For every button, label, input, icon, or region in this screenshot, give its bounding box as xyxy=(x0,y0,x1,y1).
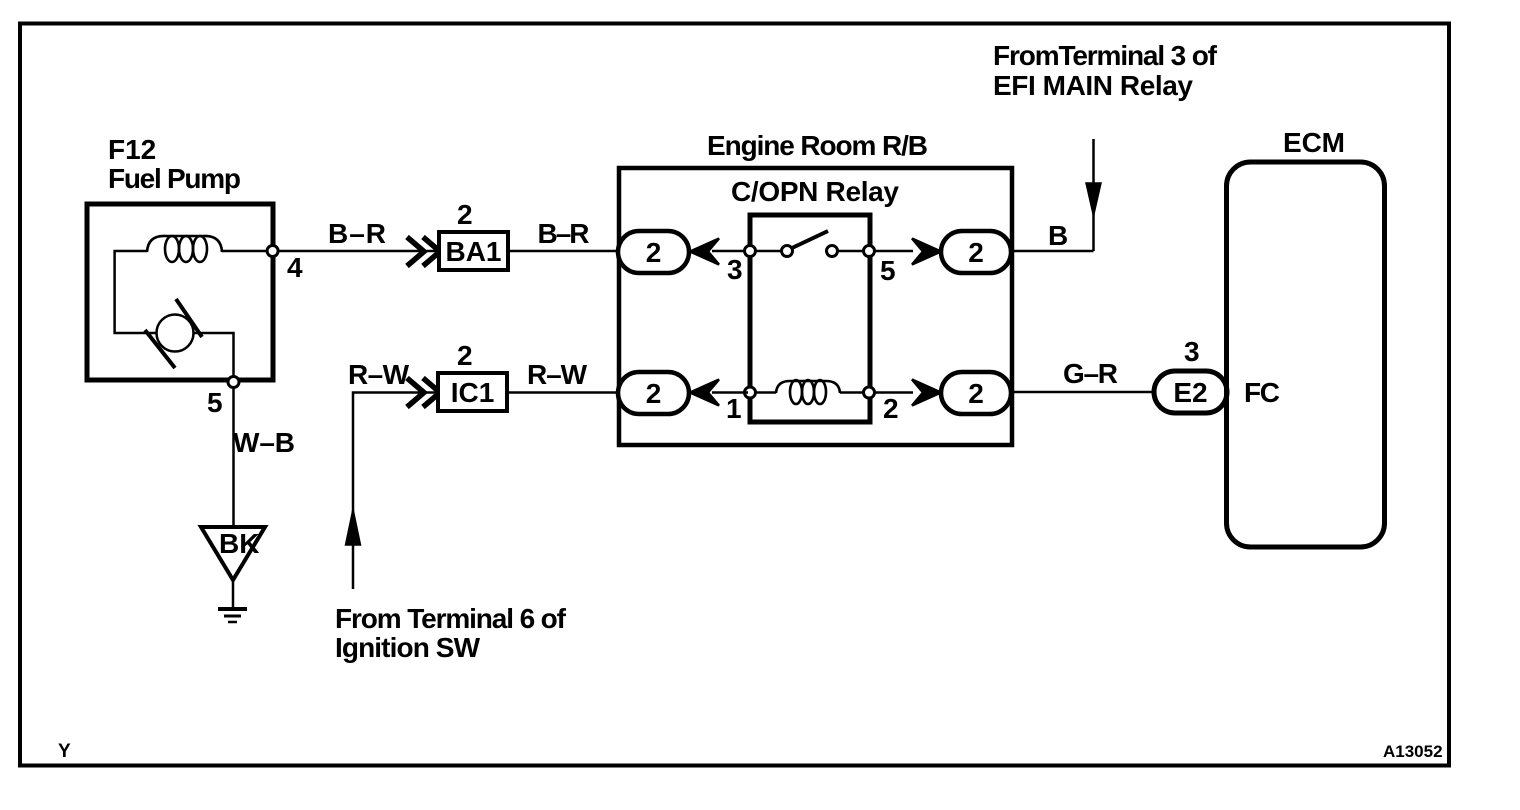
wire W-B xyxy=(233,388,295,527)
svg-text:2: 2 xyxy=(457,199,473,230)
svg-text:2: 2 xyxy=(883,393,899,424)
svg-text:1: 1 xyxy=(726,393,742,424)
svg-text:5: 5 xyxy=(880,255,896,286)
svg-text:W–B: W–B xyxy=(233,427,295,458)
wire R-W from ignition switch (with up arrow) xyxy=(346,359,441,589)
connector 2 (right bottom) xyxy=(912,372,1011,414)
inductor (fuel pump coil) xyxy=(147,236,222,262)
svg-text:R–W: R–W xyxy=(348,359,410,390)
label Y xyxy=(58,741,71,762)
relay C/OPN xyxy=(731,176,899,422)
wire B xyxy=(1011,220,1094,251)
svg-text:BA1: BA1 xyxy=(445,236,501,267)
connector 2 (left top) xyxy=(618,231,719,273)
svg-text:C/OPN Relay: C/OPN Relay xyxy=(731,176,899,207)
svg-text:G–R: G–R xyxy=(1063,358,1118,389)
svg-text:B–R: B–R xyxy=(538,218,590,249)
svg-text:FC: FC xyxy=(1244,377,1280,408)
connector BA1 xyxy=(407,199,508,270)
svg-text:IC1: IC1 xyxy=(451,377,495,408)
wire (motor to node 5) xyxy=(194,333,234,376)
wire (terminal 2 to right arrow, bottom) xyxy=(875,391,913,394)
wire R-W (IC1 to R/B) xyxy=(507,359,618,393)
ECM box xyxy=(1227,127,1385,547)
svg-text:2: 2 xyxy=(457,340,473,371)
svg-text:2: 2 xyxy=(646,378,662,409)
svg-text:2: 2 xyxy=(646,237,662,268)
svg-text:Engine Room R/B: Engine Room R/B xyxy=(707,130,928,161)
svg-text:2: 2 xyxy=(968,378,984,409)
connector E2 (pin 3) xyxy=(1154,336,1227,413)
svg-text:E2: E2 xyxy=(1173,377,1207,408)
ground shield BK xyxy=(201,527,265,580)
svg-text:R–W: R–W xyxy=(527,359,588,390)
label A13052 xyxy=(1383,742,1443,761)
svg-text:B: B xyxy=(1048,220,1068,251)
svg-text:3: 3 xyxy=(727,254,743,285)
svg-text:5: 5 xyxy=(207,387,223,418)
wire (coil to node 4) xyxy=(222,250,268,253)
note From Terminal 6 of Ignition SW xyxy=(335,603,567,663)
wire B-R (BA1 to R/B) xyxy=(508,218,618,251)
fuel pump F12 box xyxy=(87,204,273,380)
note From Terminal 3 of EFI MAIN Relay xyxy=(993,40,1218,101)
svg-text:F12: F12 xyxy=(108,134,156,165)
wire B-R (node 4 to BA1) xyxy=(278,218,440,251)
svg-text:FromTerminal 3 of: FromTerminal 3 of xyxy=(993,40,1218,71)
connector IC1 xyxy=(407,340,507,411)
motor M (fuel pump) xyxy=(145,299,202,368)
svg-text:Y: Y xyxy=(58,741,71,762)
junction block Engine Room R/B xyxy=(619,130,1012,445)
node 4 xyxy=(267,246,303,284)
svg-text:4: 4 xyxy=(287,252,303,283)
svg-text:B–R: B–R xyxy=(328,218,386,249)
label F12 Fuel Pump xyxy=(108,134,241,194)
wire from EFI MAIN relay (with down arrow) xyxy=(1086,139,1101,251)
relay coil (terminals 1 and 2) xyxy=(726,380,899,424)
ground xyxy=(218,578,247,622)
wire (terminal 5 to right arrow) xyxy=(875,250,913,253)
svg-text:Ignition SW: Ignition SW xyxy=(335,632,481,663)
svg-text:A13052: A13052 xyxy=(1383,742,1443,761)
relay switch (terminals 3 and 5) xyxy=(727,231,896,286)
wire G-R xyxy=(1011,358,1154,392)
wire (arrow to relay terminal 3) xyxy=(712,250,748,253)
svg-text:2: 2 xyxy=(968,237,984,268)
svg-text:EFI MAIN Relay: EFI MAIN Relay xyxy=(993,70,1193,101)
node 5 xyxy=(207,377,239,419)
svg-text:BK: BK xyxy=(219,528,259,559)
wire (terminal 1 to left arrow, bottom) xyxy=(712,391,748,394)
svg-text:3: 3 xyxy=(1184,336,1200,367)
svg-text:From Terminal 6 of: From Terminal 6 of xyxy=(335,603,567,634)
svg-text:ECM: ECM xyxy=(1283,127,1345,158)
wire (pump internal left branch) xyxy=(115,251,157,333)
connector 2 (right top) xyxy=(912,231,1011,273)
connector 2 (left bottom) xyxy=(618,372,719,414)
svg-text:Fuel Pump: Fuel Pump xyxy=(108,163,241,194)
pin label FC xyxy=(1244,377,1280,408)
